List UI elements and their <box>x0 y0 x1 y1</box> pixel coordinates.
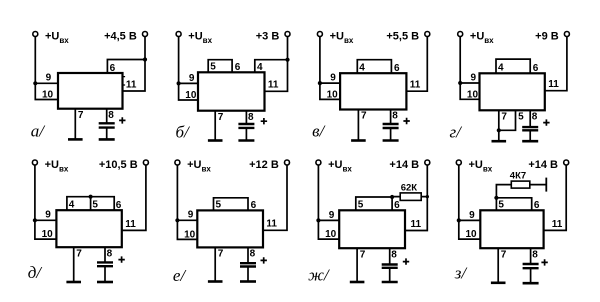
svg-text:6: 6 <box>533 63 539 74</box>
input terminal +Uвх (д) <box>32 160 37 165</box>
svg-text:7: 7 <box>78 110 84 121</box>
svg-text:11: 11 <box>268 80 279 91</box>
input terminal +Uвх (е) <box>175 160 180 165</box>
svg-text:8: 8 <box>391 249 397 260</box>
svg-text:+4,5 В: +4,5 В <box>104 31 137 43</box>
input terminal +Uвх (в) <box>317 32 322 37</box>
capacitor C (ж) positive lead (pin 8 wire) <box>389 248 391 264</box>
svg-text:6: 6 <box>394 200 400 211</box>
svg-text:8: 8 <box>532 249 538 260</box>
svg-text:6: 6 <box>235 62 241 73</box>
svg-text:6: 6 <box>251 200 257 211</box>
wire: input terminal down to pin 10 (ж) <box>318 165 339 239</box>
svg-text:ж/: ж/ <box>308 266 331 285</box>
ground (pin 7) (д) <box>66 281 81 284</box>
resistor R 62К body (ж) <box>400 193 421 201</box>
capacitor C (д) plates <box>97 262 113 266</box>
capacitor C (е) positive lead (pin 8 wire) <box>247 247 249 263</box>
wire: input terminal down to pin 10 (а) <box>35 36 58 99</box>
wire: output terminal down to pin 11 (г) <box>545 36 567 90</box>
output terminal (е) <box>285 160 290 165</box>
output terminal (г) <box>564 32 569 37</box>
svg-text:11: 11 <box>266 219 277 230</box>
IC regulator body (з) <box>480 210 543 248</box>
node: junction input/pin9 (з) <box>457 218 461 222</box>
svg-text:7: 7 <box>218 112 224 123</box>
svg-text:10: 10 <box>184 229 196 240</box>
svg-text:4: 4 <box>359 62 365 73</box>
output terminal (з) <box>564 160 569 165</box>
svg-text:11: 11 <box>411 219 422 230</box>
input terminal +Uвх (б) <box>176 32 181 37</box>
ground (pin 7) (з) <box>491 281 506 284</box>
svg-text:8: 8 <box>532 112 538 123</box>
capacitor C (б) plates <box>238 124 254 128</box>
svg-text:6: 6 <box>394 63 400 74</box>
svg-text:+14 В: +14 В <box>528 159 558 171</box>
wire: pin 7 down to ground (ж) <box>356 248 358 282</box>
jumper strap pins 5-6 (ж) <box>356 197 392 210</box>
node: pin 5 stub top (з) <box>494 196 498 200</box>
capacitor C (е) negative lead <box>247 267 249 282</box>
svg-text:+10,5 В: +10,5 В <box>99 159 138 171</box>
svg-text:+5,5 В: +5,5 В <box>386 31 419 43</box>
svg-text:9: 9 <box>189 73 195 84</box>
capacitor C (з) positive lead (pin 8 wire) <box>530 248 532 264</box>
svg-text:10: 10 <box>327 89 339 100</box>
wire: input terminal down to pin 10 (б) <box>179 36 198 100</box>
svg-text:5: 5 <box>216 200 222 211</box>
jumper strap pins 5-6 (б) <box>208 60 232 73</box>
capacitor C (з) plates <box>523 264 539 268</box>
wire: output terminal down to pin 11 (б) <box>265 36 288 91</box>
ground (under C (г)) <box>522 140 538 143</box>
wire: pin 9 stub (в) <box>320 82 340 84</box>
wire: pin 7 down to ground (е) <box>214 247 216 281</box>
svg-text:4: 4 <box>498 63 504 74</box>
ground (pin 7) (в) <box>351 139 366 142</box>
capacitor C (з) negative lead <box>530 268 532 283</box>
svg-text:5: 5 <box>518 112 524 123</box>
svg-text:9: 9 <box>469 210 475 221</box>
svg-text:11: 11 <box>552 219 563 230</box>
capacitor C (д) polarity + <box>118 256 124 262</box>
wire: pin 7 down to ground (д) <box>73 247 75 282</box>
svg-text:5: 5 <box>358 200 364 211</box>
ground (pin 7) (б) <box>208 139 223 142</box>
wire: pin 9 stub (а) <box>35 82 58 84</box>
node: junction input/pin9 (д) <box>33 218 37 222</box>
input terminal +Uвх (ж) <box>316 160 321 165</box>
svg-text:+3 В: +3 В <box>256 31 280 43</box>
wire: pin 9 stub (г) <box>460 82 479 84</box>
svg-text:6: 6 <box>534 200 540 211</box>
wire: pin 9 stub (ж) <box>318 219 339 221</box>
svg-text:7: 7 <box>501 112 507 123</box>
wire: input terminal down to pin 10 (д) <box>35 165 57 239</box>
capacitor C (б) polarity + <box>261 118 267 124</box>
resistor leads pin6 node to output wire (ж) <box>392 196 427 198</box>
svg-text:10: 10 <box>185 90 197 101</box>
wire: output terminal down to pin 11 (з) <box>544 165 567 231</box>
ground (under C (з)) <box>523 282 539 285</box>
jumper strap pins 5-6 (з) <box>496 198 531 211</box>
ground (pin 7) (е) <box>208 280 223 283</box>
wire: input terminal down to pin 10 (з) <box>459 165 481 239</box>
capacitor C (е) polarity + <box>261 257 267 263</box>
svg-text:7: 7 <box>501 249 507 260</box>
capacitor C (д) positive lead (pin 8 wire) <box>104 247 106 262</box>
svg-text:8: 8 <box>108 110 114 121</box>
resistor R 4К7 body (з) <box>511 181 530 188</box>
node: pin 5 stub top (д) <box>89 195 93 199</box>
svg-text:4К7: 4К7 <box>510 171 526 182</box>
svg-text:9: 9 <box>188 210 194 221</box>
capacitor C (а) polarity + <box>119 117 125 123</box>
svg-text:8: 8 <box>250 249 256 260</box>
svg-text:6: 6 <box>110 63 116 74</box>
wire: output terminal down to pin 11 (д) <box>122 165 146 231</box>
svg-text:5: 5 <box>498 200 504 211</box>
ground (under C (д)) <box>97 281 113 284</box>
wire: pin 7 down to ground (в) <box>357 110 359 141</box>
node: junction input/pin9 (г) <box>458 81 462 85</box>
wire: pin5 node up to resistor (з) <box>496 185 511 198</box>
capacitor C (з) polarity + <box>541 259 547 265</box>
IC regulator body (ж) <box>339 210 405 248</box>
wire: input terminal down to pin 10 (г) <box>460 36 479 99</box>
svg-text:10: 10 <box>467 89 479 100</box>
ground (under C (е)) <box>240 280 256 283</box>
wire: input terminal down to pin 10 (е) <box>177 165 197 240</box>
svg-text:5: 5 <box>92 199 98 210</box>
wire: pin 9 stub (б) <box>179 82 198 84</box>
svg-text:а/: а/ <box>31 122 47 141</box>
svg-text:10: 10 <box>466 229 478 240</box>
capacitor C (д) negative lead <box>104 266 106 282</box>
IC regulator body (б) <box>198 72 265 110</box>
IC regulator body (в) <box>340 73 406 109</box>
wire: pin 9 stub (е) <box>177 219 197 221</box>
svg-text:11: 11 <box>410 80 421 91</box>
jumper strap pins 5-6 (е) <box>214 198 249 211</box>
wire: pin 7 down to ground (а) <box>74 109 76 140</box>
svg-text:+9 В: +9 В <box>535 31 559 43</box>
output terminal (б) <box>285 32 290 37</box>
svg-text:9: 9 <box>471 72 477 83</box>
svg-text:10: 10 <box>325 229 337 240</box>
supply T-bar terminal (з) <box>545 178 547 192</box>
output terminal (д) <box>143 160 148 165</box>
svg-text:10: 10 <box>42 90 54 101</box>
node: junction input/pin9 (в) <box>318 81 322 85</box>
svg-text:7: 7 <box>361 111 367 122</box>
wire: output terminal down to pin 11 (е) <box>263 165 287 230</box>
svg-text:8: 8 <box>107 248 113 259</box>
output terminal (в) <box>425 32 430 37</box>
svg-text:11: 11 <box>126 79 137 90</box>
capacitor C (г) polarity + <box>543 119 549 125</box>
jumper strap pins 4-6 (в) <box>357 60 391 73</box>
svg-text:+12 В: +12 В <box>249 159 279 171</box>
capacitor C (г) plates <box>522 127 538 130</box>
capacitor C (в) polarity + <box>403 118 409 124</box>
jumper strap pins 4-5-6 (д) <box>67 197 114 211</box>
capacitor C (а) positive lead (pin 8 wire) <box>106 109 108 124</box>
svg-text:9: 9 <box>46 73 52 84</box>
node: pins 5-7 tie (г) <box>497 128 501 132</box>
capacitor C (а) plates <box>99 123 115 127</box>
svg-text:9: 9 <box>330 73 336 84</box>
svg-text:8: 8 <box>392 111 398 122</box>
wire: pin 9 stub (з) <box>459 219 481 221</box>
node: junction input/pin9 (б) <box>177 81 181 85</box>
IC regulator body (д) <box>56 210 121 247</box>
svg-text:11: 11 <box>125 219 136 230</box>
output terminal (ж) <box>425 160 430 165</box>
node: junction input/pin9 (е) <box>175 218 179 222</box>
node: pin 6 / resistor lead (ж) <box>390 195 394 199</box>
wire: pin 5 down and tie to pin 7 (г) <box>499 110 516 130</box>
capacitor C (б) positive lead (pin 8 wire) <box>245 111 247 124</box>
wire: output terminal down to pin 11 (ж) <box>405 165 427 231</box>
svg-text:+14 В: +14 В <box>389 159 419 171</box>
IC regulator body (г) <box>480 73 545 110</box>
svg-text:д/: д/ <box>28 263 44 282</box>
wire: pin 6 stub up and right to output (а) <box>107 60 145 74</box>
wire: input terminal down to pin 10 (в) <box>320 36 340 99</box>
output terminal (а) <box>143 32 148 37</box>
svg-text:6: 6 <box>116 200 122 211</box>
input terminal +Uвх (г) <box>458 32 463 37</box>
IC regulator body (а) <box>58 73 123 109</box>
wire: output terminal down to pin 11 (а) <box>123 36 146 91</box>
capacitor C (в) negative lead <box>390 128 392 141</box>
wire: pin 4 stub up and right to output wire (б) <box>255 60 288 73</box>
wire: pin 7 down to ground (з) <box>497 248 499 283</box>
capacitor C (г) positive lead (pin 8 wire) <box>529 110 531 127</box>
svg-text:11: 11 <box>548 79 559 90</box>
ground (under C (в)) <box>383 139 399 142</box>
svg-text:9: 9 <box>45 210 51 221</box>
node: junction pin4 wire/output wire (б) <box>285 58 289 62</box>
ground (under C (а)) <box>99 138 115 141</box>
ground (pin 7) (а) <box>68 138 83 141</box>
svg-text:б/: б/ <box>176 123 192 142</box>
capacitor C (б) negative lead <box>245 128 247 141</box>
node: resistor / output wire (ж) <box>426 195 429 198</box>
IC regulator body (е) <box>197 210 263 247</box>
capacitor C (а) negative lead <box>106 128 108 140</box>
node: junction input/pin9 (а) <box>33 81 37 85</box>
wire: pin 7 down (г) <box>498 110 500 141</box>
input terminal +Uвх (з) <box>456 160 461 165</box>
capacitor C (ж) plates <box>382 265 398 268</box>
svg-text:10: 10 <box>42 229 54 240</box>
ground (pin 7) (г) <box>492 140 507 143</box>
resistor right lead to supply T-bar (з) <box>530 184 547 186</box>
ground (under C (б)) <box>238 139 254 142</box>
capacitor C (в) plates <box>383 124 399 128</box>
capacitor C (в) positive lead (pin 8 wire) <box>390 110 392 125</box>
pin 11 tab on IC edge (а) <box>123 77 126 85</box>
ground (pin 7) (ж) <box>350 281 365 284</box>
svg-text:7: 7 <box>76 248 82 259</box>
svg-text:9: 9 <box>329 210 335 221</box>
svg-text:7: 7 <box>360 249 366 260</box>
node: junction pin6 wire/output wire (а) <box>143 57 147 61</box>
wire: output terminal down to pin 11 (в) <box>406 36 427 91</box>
ground (under C (ж)) <box>382 281 398 284</box>
wire: pin 7 down to ground (б) <box>214 111 216 141</box>
svg-text:4: 4 <box>69 199 75 210</box>
svg-text:4: 4 <box>257 62 263 73</box>
jumper strap pins 4-6 (г) <box>496 59 530 73</box>
svg-text:5: 5 <box>210 62 216 73</box>
capacitor C (ж) negative lead <box>389 268 391 282</box>
node: junction input/pin9 (ж) <box>316 218 320 222</box>
svg-text:7: 7 <box>218 249 224 260</box>
capacitor C (ж) polarity + <box>403 258 409 264</box>
svg-text:62К: 62К <box>401 183 418 194</box>
svg-text:8: 8 <box>248 112 254 123</box>
capacitor C (е) plates <box>240 263 256 266</box>
input terminal +Uвх (а) <box>33 32 38 37</box>
capacitor C (г) negative lead <box>529 130 531 141</box>
wire: pin 9 stub (д) <box>35 219 57 221</box>
